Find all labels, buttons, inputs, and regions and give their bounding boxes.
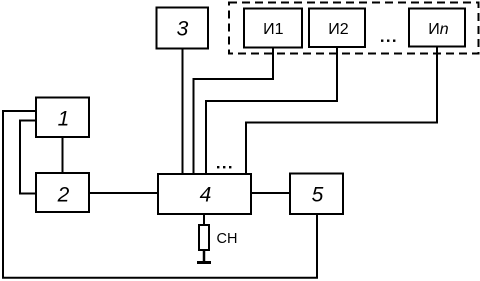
wire block1 bottom to block2 top xyxy=(62,137,64,173)
svg-text:СН: СН xyxy=(217,231,238,247)
block 2 xyxy=(36,173,89,212)
block 5 xyxy=(290,174,343,215)
svg-text:5: 5 xyxy=(312,184,324,207)
block 3 xyxy=(157,8,209,49)
dashed enclosure of measuring units xyxy=(229,3,479,54)
wire block1 left to block2 left xyxy=(20,121,36,194)
svg-text:3: 3 xyxy=(177,18,189,41)
wire block3 bottom to block4 top xyxy=(182,49,184,175)
wire resistor to ground xyxy=(203,250,206,261)
svg-text:1: 1 xyxy=(58,107,70,130)
wire И2 bottom to block4 top xyxy=(206,47,337,174)
svg-text:И2: И2 xyxy=(328,21,349,38)
wire Иn bottom to block4 top xyxy=(246,47,437,175)
block 4 xyxy=(158,174,251,214)
wire block4 bottom to load resistor xyxy=(203,214,205,225)
wire block4 right to block5 left xyxy=(251,192,290,194)
block И2 xyxy=(309,9,365,48)
block И1 xyxy=(244,9,302,48)
wire block1 left to outer feedback bus xyxy=(3,111,317,278)
block Иn xyxy=(409,9,465,47)
wire block2 right to block4 left xyxy=(89,192,158,194)
svg-text:2: 2 xyxy=(57,184,70,207)
ellipsis between И2 and Иn xyxy=(381,40,395,42)
svg-text:И1: И1 xyxy=(263,21,284,38)
wire И1 bottom to block4 top xyxy=(194,48,274,175)
ellipsis above block4 xyxy=(217,166,231,168)
svg-text:Иn: Иn xyxy=(428,21,449,38)
svg-text:4: 4 xyxy=(200,184,212,207)
ground xyxy=(197,261,211,264)
block 1 xyxy=(36,98,89,138)
resistor СН (load) xyxy=(199,225,209,250)
